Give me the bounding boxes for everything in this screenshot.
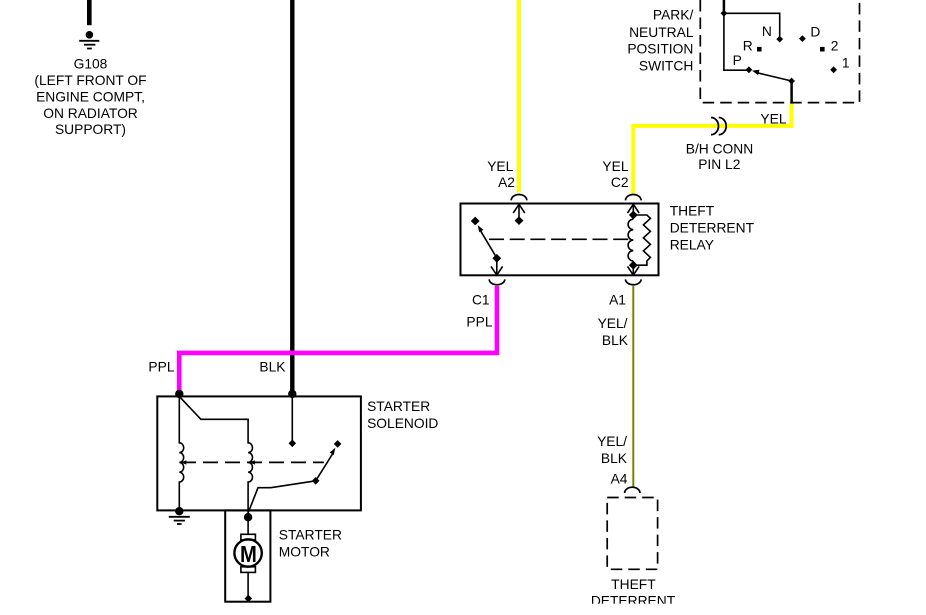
svg-text:N: N: [762, 24, 772, 39]
svg-text:C2: C2: [611, 175, 629, 190]
svg-text:BLK: BLK: [602, 333, 629, 348]
svg-text:YEL: YEL: [602, 159, 628, 174]
svg-text:DETERRENT: DETERRENT: [670, 221, 755, 236]
svg-text:ENGINE COMPT,: ENGINE COMPT,: [36, 89, 145, 104]
svg-text:MOTOR: MOTOR: [279, 544, 330, 559]
svg-text:1: 1: [842, 56, 850, 71]
svg-text:SWITCH: SWITCH: [639, 58, 693, 73]
svg-text:NEUTRAL: NEUTRAL: [629, 25, 694, 40]
svg-text:A4: A4: [611, 472, 628, 487]
svg-text:BLK: BLK: [601, 451, 628, 466]
svg-text:PPL: PPL: [466, 315, 492, 330]
svg-text:POSITION: POSITION: [627, 42, 693, 57]
svg-text:YEL/: YEL/: [597, 434, 627, 449]
svg-text:2: 2: [831, 39, 839, 54]
svg-text:YEL: YEL: [760, 111, 786, 126]
svg-text:M: M: [240, 541, 257, 568]
svg-text:P: P: [733, 53, 742, 68]
svg-text:D: D: [810, 25, 820, 40]
svg-text:STARTER: STARTER: [367, 399, 430, 414]
svg-text:A2: A2: [498, 175, 515, 190]
svg-text:THEFT: THEFT: [670, 204, 715, 219]
svg-text:B/H CONN: B/H CONN: [686, 142, 753, 157]
svg-text:THEFT: THEFT: [611, 577, 656, 592]
svg-text:SOLENOID: SOLENOID: [367, 416, 438, 431]
svg-text:PPL: PPL: [148, 360, 174, 375]
svg-text:G108: G108: [74, 56, 108, 71]
svg-text:PIN L2: PIN L2: [698, 157, 740, 172]
svg-text:BLK: BLK: [259, 360, 286, 375]
svg-text:R: R: [743, 38, 753, 53]
svg-text:SUPPORT): SUPPORT): [55, 122, 126, 137]
svg-text:PARK/: PARK/: [653, 8, 694, 23]
svg-text:RELAY: RELAY: [670, 238, 714, 253]
svg-text:YEL/: YEL/: [598, 316, 628, 331]
svg-text:(LEFT FRONT OF: (LEFT FRONT OF: [34, 73, 146, 88]
svg-text:A1: A1: [609, 293, 626, 308]
svg-text:C1: C1: [472, 293, 490, 308]
svg-text:STARTER: STARTER: [279, 528, 342, 543]
svg-text:YEL: YEL: [487, 159, 513, 174]
svg-text:ON RADIATOR: ON RADIATOR: [43, 106, 138, 121]
